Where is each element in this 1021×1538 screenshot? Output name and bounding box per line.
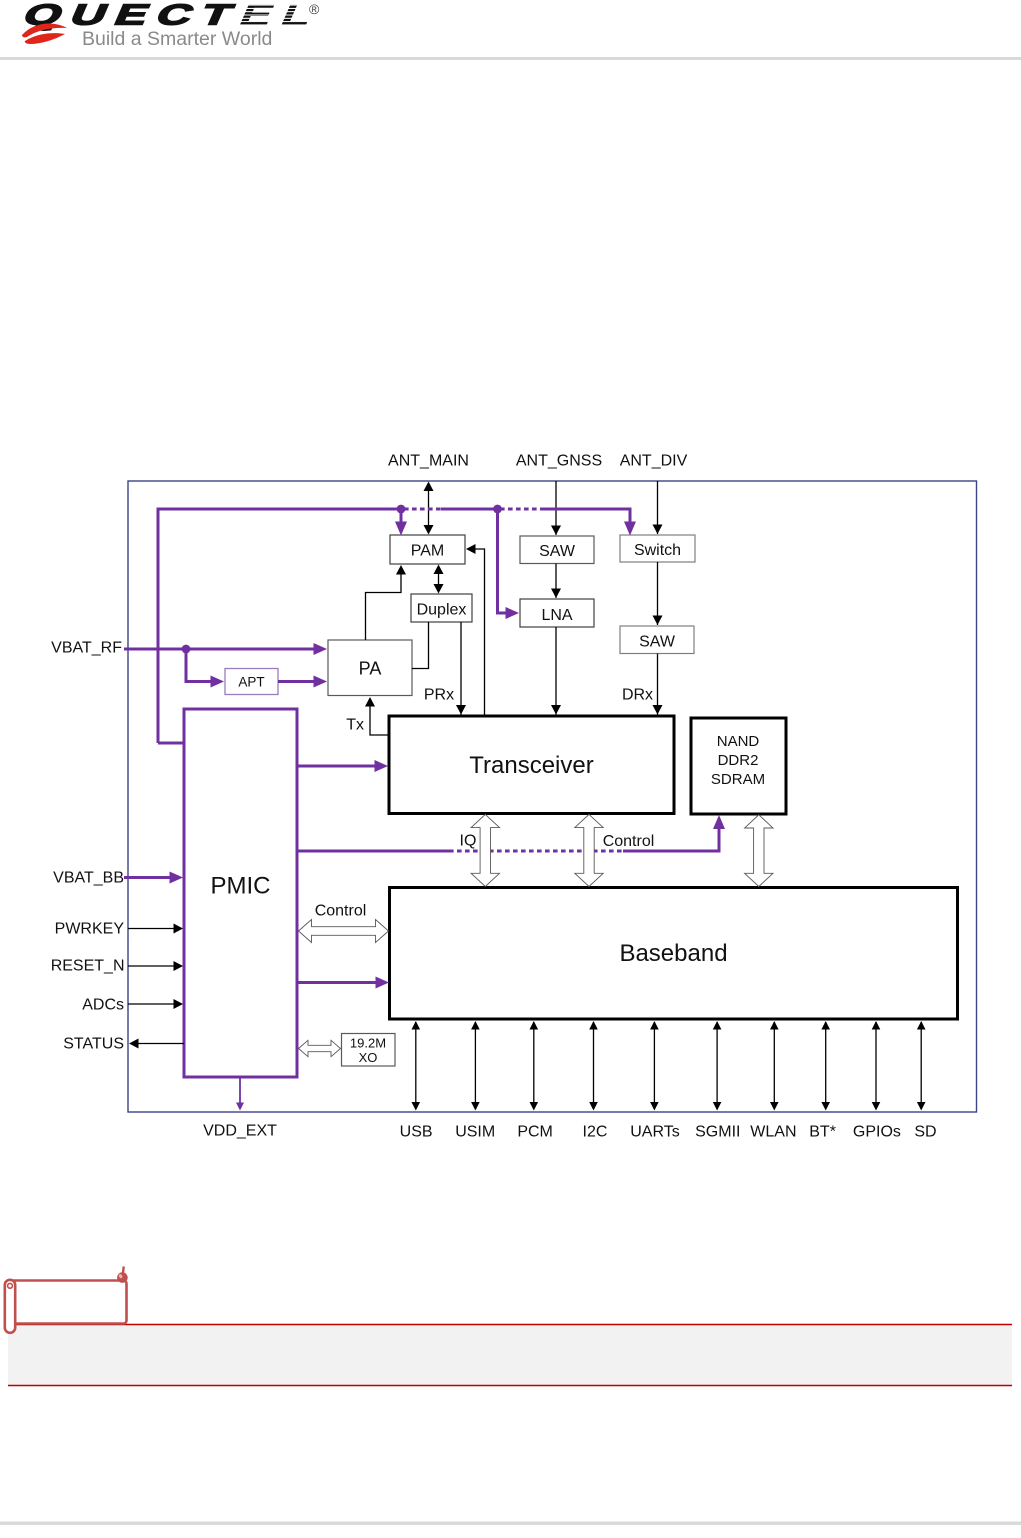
svg-text:XO: XO bbox=[359, 1050, 378, 1065]
bus Control Transceiver-Baseband bbox=[575, 814, 603, 886]
svg-text:PMIC: PMIC bbox=[211, 873, 271, 900]
wire STATUS out of PMIC bbox=[129, 1039, 184, 1049]
wire ANT_DIV to Switch bbox=[653, 481, 663, 534]
svg-text:PAM: PAM bbox=[411, 543, 444, 560]
wire SAW to LNA bbox=[551, 564, 561, 599]
svg-text:®: ® bbox=[309, 1, 320, 17]
power rail VBAT_BB into PMIC bbox=[124, 872, 183, 884]
block Transceiver U1 bbox=[389, 716, 674, 814]
svg-text:USIM: USIM bbox=[455, 1124, 495, 1141]
svg-text:Duplex: Duplex bbox=[417, 602, 467, 619]
block LNA bbox=[520, 599, 594, 627]
power rail VBAT_RF to PA bbox=[124, 643, 327, 655]
svg-text:NAND: NAND bbox=[717, 733, 760, 750]
svg-text:Tx: Tx bbox=[346, 717, 364, 734]
svg-text:BT*: BT* bbox=[809, 1124, 836, 1141]
bus Control PMIC-Baseband bbox=[299, 920, 389, 943]
svg-text:VBAT_BB: VBAT_BB bbox=[53, 870, 124, 887]
block 19.2M XO crystal oscillator bbox=[342, 1034, 396, 1067]
svg-text:GPIOs: GPIOs bbox=[853, 1124, 901, 1141]
wire USIM interface bbox=[471, 1021, 480, 1111]
svg-text:UARTs: UARTs bbox=[630, 1124, 680, 1141]
junction dot on top rail at PAM drop bbox=[397, 505, 406, 514]
wire I2C interface bbox=[589, 1021, 598, 1111]
power PMIC to Transceiver bbox=[297, 760, 388, 772]
block Baseband bbox=[390, 888, 958, 1020]
svg-text:STATUS: STATUS bbox=[63, 1036, 124, 1053]
block PAM bbox=[390, 535, 465, 564]
block APT bbox=[225, 669, 278, 695]
wire BT* interface bbox=[821, 1021, 830, 1111]
power PMIC to VDD_EXT bbox=[236, 1077, 244, 1111]
svg-text:SD: SD bbox=[914, 1124, 936, 1141]
diagram outer frame bbox=[128, 481, 977, 1112]
power PMIC to Baseband bbox=[297, 977, 389, 989]
svg-text:PA: PA bbox=[359, 659, 382, 679]
footer rule bbox=[0, 1522, 1021, 1526]
wire UARTs interface bbox=[650, 1021, 659, 1111]
bus IQ Transceiver-Baseband bbox=[471, 814, 499, 886]
svg-text:SGMII: SGMII bbox=[695, 1124, 740, 1141]
wire SAW diversity to Transceiver DRx bbox=[653, 654, 663, 715]
bus NAND-Baseband bbox=[745, 815, 773, 887]
note scroll icon bbox=[5, 1267, 128, 1333]
svg-text:SAW: SAW bbox=[539, 543, 576, 560]
wire PAM to Duplex (bidirectional) bbox=[434, 565, 444, 594]
wire PWRKEY into PMIC bbox=[128, 924, 183, 934]
svg-text:APT: APT bbox=[238, 675, 264, 690]
svg-text:DRx: DRx bbox=[622, 687, 653, 704]
wire Duplex to Transceiver PRx bbox=[456, 622, 466, 715]
svg-text:ADCs: ADCs bbox=[82, 997, 124, 1014]
svg-text:LNA: LNA bbox=[541, 607, 572, 624]
power rail VBAT_RF top rail bbox=[158, 509, 636, 743]
note table row band bbox=[8, 1325, 1012, 1386]
svg-text:Baseband: Baseband bbox=[619, 940, 727, 967]
svg-text:PRx: PRx bbox=[424, 687, 454, 704]
svg-text:Transceiver: Transceiver bbox=[469, 752, 593, 779]
svg-text:VDD_EXT: VDD_EXT bbox=[203, 1123, 277, 1140]
svg-text:SAW: SAW bbox=[639, 634, 676, 651]
wire SGMII interface bbox=[713, 1021, 722, 1111]
block SAW (diversity) bbox=[620, 626, 694, 654]
control rail PMIC to NAND (IQ / Control dashed) bbox=[297, 815, 725, 851]
wire Switch to SAW diversity bbox=[653, 562, 663, 625]
wire ANT_GNSS to SAW bbox=[551, 481, 561, 535]
svg-text:Build a Smarter World: Build a Smarter World bbox=[82, 28, 272, 50]
svg-text:IQ: IQ bbox=[460, 833, 477, 850]
junction dot on VBAT_RF rail bbox=[182, 645, 191, 654]
junction dot on top rail at LNA branch bbox=[493, 505, 502, 514]
power branch to LNA bbox=[498, 509, 520, 619]
svg-text:USB: USB bbox=[400, 1124, 433, 1141]
block PA bbox=[328, 640, 412, 696]
wire PCM interface bbox=[530, 1021, 539, 1111]
power rail into PMIC top left bbox=[158, 742, 184, 745]
block SAW (GNSS) bbox=[520, 536, 594, 564]
wire ADCs into PMIC bbox=[128, 999, 183, 1009]
power drop into PAM bbox=[395, 509, 407, 536]
svg-text:WLAN: WLAN bbox=[750, 1124, 796, 1141]
Quectel logo wordmark QUECTEL bbox=[18, 0, 329, 31]
block NAND DDR2 SDRAM memory bbox=[691, 718, 786, 814]
svg-text:ANT_MAIN: ANT_MAIN bbox=[388, 453, 469, 470]
bus PMIC-XO bbox=[299, 1040, 341, 1056]
svg-text:I2C: I2C bbox=[583, 1124, 608, 1141]
svg-text:Control: Control bbox=[603, 833, 655, 850]
svg-text:PWRKEY: PWRKEY bbox=[55, 921, 125, 938]
logo red swoosh bbox=[22, 24, 67, 44]
wire PA to PAM bbox=[366, 565, 407, 640]
svg-text:ANT_DIV: ANT_DIV bbox=[620, 453, 688, 470]
wire APT to PA bbox=[278, 676, 327, 688]
wire Transceiver Tx to PA bbox=[365, 697, 389, 735]
header rule bbox=[0, 57, 1021, 60]
wire RESET_N into PMIC bbox=[128, 961, 183, 971]
wire WLAN interface bbox=[770, 1021, 779, 1111]
wire ANT_MAIN to PAM (bidirectional) bbox=[424, 482, 434, 535]
block Duplex bbox=[411, 594, 472, 622]
wire SD interface bbox=[917, 1021, 926, 1111]
svg-text:PCM: PCM bbox=[517, 1124, 553, 1141]
svg-text:Control: Control bbox=[315, 903, 367, 920]
power branch to APT bbox=[186, 649, 224, 688]
svg-text:SDRAM: SDRAM bbox=[711, 771, 765, 788]
svg-text:DDR2: DDR2 bbox=[718, 752, 759, 769]
svg-text:RESET_N: RESET_N bbox=[51, 958, 125, 975]
svg-text:ANT_GNSS: ANT_GNSS bbox=[516, 453, 602, 470]
block PMIC bbox=[184, 709, 297, 1077]
block Switch bbox=[620, 535, 695, 562]
svg-text:VBAT_RF: VBAT_RF bbox=[51, 640, 122, 657]
svg-text:Switch: Switch bbox=[634, 542, 681, 559]
svg-text:19.2M: 19.2M bbox=[350, 1036, 386, 1051]
wire Transceiver feedback to PAM bbox=[466, 544, 485, 716]
wire LNA to Transceiver bbox=[551, 627, 561, 715]
wire GPIOs interface bbox=[872, 1021, 881, 1111]
wire USB interface bbox=[412, 1021, 421, 1111]
wire Duplex to PA bbox=[412, 622, 429, 669]
